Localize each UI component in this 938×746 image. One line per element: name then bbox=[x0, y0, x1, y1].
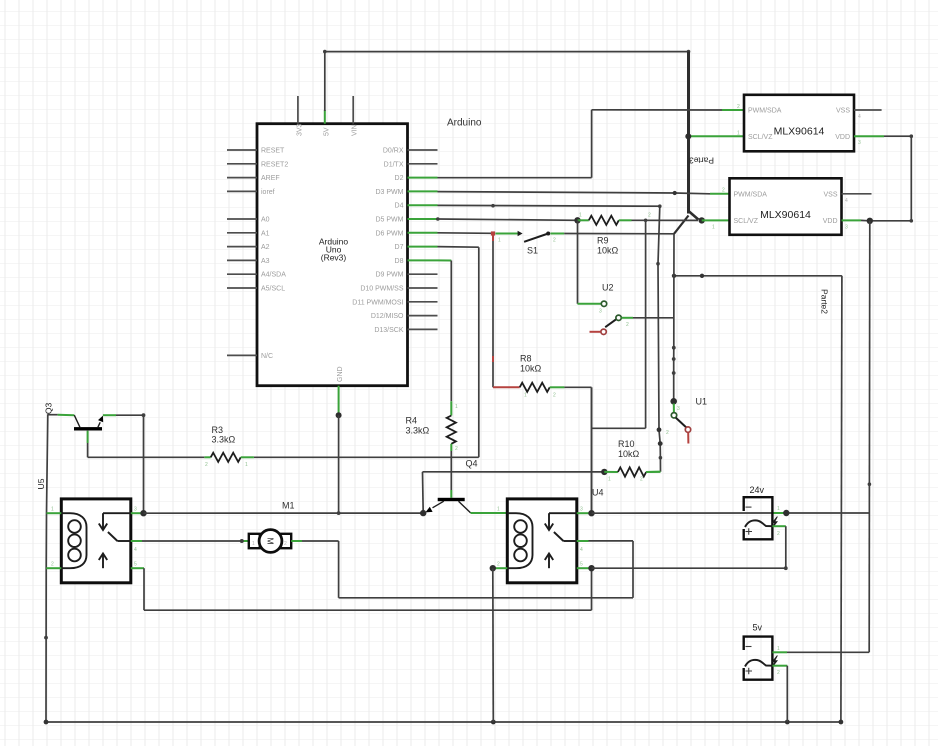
node VDD junction bbox=[867, 218, 873, 224]
wire R10 row to M1 net bbox=[423, 472, 605, 513]
svg-text:VIN: VIN bbox=[352, 124, 359, 136]
svg-text:N/C: N/C bbox=[261, 353, 273, 360]
svg-text:A5/SCL: A5/SCL bbox=[261, 286, 285, 293]
wire 24v plus to relays bottom bbox=[592, 526, 788, 570]
pin VIN bbox=[352, 96, 359, 136]
svg-text:2: 2 bbox=[777, 670, 780, 676]
pin D2 bbox=[395, 175, 438, 182]
transistor Q4 bbox=[425, 459, 477, 513]
node SCL2 junction bbox=[699, 217, 705, 223]
wire 5V top horizontal bbox=[323, 50, 690, 54]
label Parte2 bbox=[820, 289, 830, 314]
svg-text:MLX90614: MLX90614 bbox=[760, 209, 811, 221]
svg-text:2: 2 bbox=[284, 541, 287, 547]
svg-text:D13/SCK: D13/SCK bbox=[374, 327, 404, 334]
svg-text:A1: A1 bbox=[261, 230, 270, 237]
wire Q4 to U4 coil bbox=[471, 512, 508, 514]
svg-text:1: 1 bbox=[737, 131, 740, 137]
node D6 red junction bbox=[491, 231, 495, 235]
pin U5 right-bottom bbox=[131, 567, 144, 569]
svg-text:10kΩ: 10kΩ bbox=[618, 449, 640, 459]
svg-text:D5 PWM: D5 PWM bbox=[376, 217, 404, 224]
svg-text:(Rev3): (Rev3) bbox=[321, 252, 347, 262]
svg-text:3: 3 bbox=[677, 406, 680, 412]
wire D8 down to R4 bbox=[438, 260, 452, 401]
svg-text:1: 1 bbox=[252, 541, 255, 547]
svg-text:R3: R3 bbox=[212, 425, 224, 435]
svg-text:2: 2 bbox=[648, 213, 651, 219]
svg-text:1: 1 bbox=[455, 404, 458, 410]
svg-text:D10 PWM/SS: D10 PWM/SS bbox=[360, 286, 404, 293]
pin U5 common bbox=[131, 540, 142, 542]
svg-text:4: 4 bbox=[858, 114, 861, 120]
wire Q3 emitter to M1 row bbox=[103, 413, 146, 513]
svg-text:U1: U1 bbox=[696, 397, 708, 407]
pin D5 PWM bbox=[376, 217, 438, 224]
wire Q3 collector from left rail bbox=[48, 414, 75, 417]
wire D6 to S1 bbox=[438, 232, 492, 235]
wire 5v plus to bottom rail bbox=[772, 666, 787, 722]
svg-text:RESET2: RESET2 bbox=[261, 161, 288, 168]
node U4 right-bottom junction bbox=[588, 565, 594, 571]
node SCL1 junction bbox=[685, 133, 691, 139]
svg-text:3: 3 bbox=[845, 225, 848, 231]
node R9 left junction bbox=[574, 217, 580, 223]
wire U4 right-top to 24v minus bbox=[592, 512, 870, 514]
svg-text:VDD: VDD bbox=[823, 218, 838, 225]
svg-text:A4/SDA: A4/SDA bbox=[261, 272, 286, 279]
svg-text:5: 5 bbox=[580, 562, 583, 568]
switch U1 bbox=[666, 397, 707, 444]
transistor Q3 bbox=[44, 403, 104, 431]
svg-text:SCL/VZ: SCL/VZ bbox=[748, 134, 773, 141]
svg-text:A3: A3 bbox=[261, 258, 270, 265]
pin D0/RX bbox=[383, 148, 438, 155]
resistor R4 3.3k bbox=[406, 401, 459, 452]
relay U5 bbox=[36, 478, 137, 583]
pin A2 bbox=[227, 244, 270, 251]
wire 5v minus to VDD rail bbox=[772, 651, 869, 653]
pin RESET bbox=[227, 148, 285, 155]
svg-text:Parte3: Parte3 bbox=[689, 156, 714, 166]
wire Q3 base stub bbox=[87, 431, 89, 458]
wire motor right to U4 common bbox=[291, 541, 633, 598]
svg-text:D11 PWM/MOSI: D11 PWM/MOSI bbox=[352, 299, 403, 306]
svg-text:1: 1 bbox=[497, 507, 500, 513]
wire VDD1 to VDD2 bbox=[854, 134, 913, 222]
pin 3V3 bbox=[296, 96, 303, 136]
node R10 left junction bbox=[601, 469, 607, 475]
wire R9 left branch down to U2 bbox=[578, 220, 602, 303]
svg-text:MLX90614: MLX90614 bbox=[774, 125, 825, 137]
wire VDD2 stub bbox=[842, 219, 868, 221]
pin U5 right-top bbox=[131, 512, 144, 514]
node M1 row left junction bbox=[140, 510, 146, 516]
svg-text:1: 1 bbox=[777, 506, 780, 512]
svg-text:Arduino: Arduino bbox=[447, 118, 482, 129]
wire R9 right to SCL2 junction bbox=[632, 219, 699, 223]
pin A4/SDA bbox=[227, 272, 286, 279]
svg-text:3: 3 bbox=[134, 507, 137, 513]
pin U4 left-bottom bbox=[493, 567, 508, 569]
relay U4 bbox=[497, 488, 604, 583]
pin AREF bbox=[227, 175, 280, 182]
svg-text:2: 2 bbox=[626, 322, 629, 328]
svg-text:1: 1 bbox=[777, 646, 780, 652]
pin D4 bbox=[395, 203, 438, 210]
motor M1 bbox=[249, 530, 291, 553]
switch S1 bbox=[495, 231, 564, 256]
pin RESET2 bbox=[227, 161, 288, 168]
pin U5 coil left-top bbox=[47, 512, 62, 514]
pin D9 PWM bbox=[376, 272, 438, 279]
svg-text:10kΩ: 10kΩ bbox=[520, 364, 542, 374]
node U4 left-bottom junction bbox=[490, 565, 496, 571]
pin D8 bbox=[395, 258, 438, 265]
svg-text:GND: GND bbox=[337, 366, 344, 382]
pin D12/MISO bbox=[371, 313, 438, 320]
svg-text:5V: 5V bbox=[323, 127, 330, 136]
ic MLX90614 #2 bbox=[712, 178, 848, 235]
wire D2 to MLX90614 #1 PWM/SDA bbox=[438, 110, 745, 178]
pin A5/SCL bbox=[227, 286, 285, 293]
svg-text:U5: U5 bbox=[36, 478, 46, 489]
pin A1 bbox=[227, 230, 270, 237]
wire D6 down to R8 bbox=[492, 234, 494, 388]
svg-text:Q3: Q3 bbox=[44, 403, 54, 415]
svg-text:4: 4 bbox=[580, 547, 583, 553]
svg-text:3.3kΩ: 3.3kΩ bbox=[406, 426, 430, 436]
svg-text:VDD: VDD bbox=[835, 134, 850, 141]
wire R8 right down to U4 bbox=[564, 387, 591, 513]
svg-text:U4: U4 bbox=[592, 488, 604, 498]
wire R4 to Q4 base bbox=[450, 451, 452, 498]
pin 5V bbox=[323, 110, 330, 136]
wire left rail bbox=[44, 414, 48, 722]
wire GND down bbox=[336, 412, 342, 515]
label Parte3 bbox=[689, 156, 714, 166]
svg-text:1: 1 bbox=[608, 477, 611, 483]
wire U5 common to motor bbox=[142, 539, 249, 543]
ic MLX90614 #1 bbox=[737, 95, 861, 152]
svg-text:2: 2 bbox=[553, 393, 556, 399]
wire D7 down to R3 row bbox=[254, 247, 479, 458]
resistor R9 10k bbox=[578, 213, 652, 256]
svg-text:D3 PWM: D3 PWM bbox=[376, 189, 404, 196]
svg-text:24v: 24v bbox=[750, 485, 765, 495]
wire Parte2 vertical bbox=[841, 276, 842, 722]
wire D4 to R10 right bbox=[438, 204, 663, 472]
pin ioref bbox=[227, 189, 275, 196]
switch U2 bbox=[590, 283, 634, 335]
pin D13/SCK bbox=[374, 327, 437, 334]
svg-text:1: 1 bbox=[579, 213, 582, 219]
battery 24v bbox=[744, 485, 780, 539]
svg-text:A2: A2 bbox=[261, 244, 270, 251]
pin VSS1 stub bbox=[854, 109, 882, 111]
svg-text:R8: R8 bbox=[520, 354, 532, 364]
svg-text:2: 2 bbox=[51, 562, 54, 568]
svg-text:D12/MISO: D12/MISO bbox=[371, 313, 404, 320]
svg-text:3: 3 bbox=[599, 309, 602, 315]
svg-text:1: 1 bbox=[245, 462, 248, 468]
svg-text:2: 2 bbox=[205, 462, 208, 468]
svg-text:2: 2 bbox=[553, 238, 556, 244]
pin U4 right-top bbox=[577, 512, 592, 514]
pin VSS2 stub bbox=[842, 193, 872, 195]
svg-text:D4: D4 bbox=[395, 203, 404, 210]
svg-text:SCL/VZ: SCL/VZ bbox=[734, 218, 759, 225]
wire M1 row bbox=[144, 501, 424, 514]
svg-text:VSS: VSS bbox=[836, 108, 850, 115]
wire Parte3 thick bus bbox=[674, 52, 699, 234]
battery 5v bbox=[744, 623, 780, 680]
wire U5 right-bottom to U4 right-bottom bbox=[144, 568, 592, 610]
svg-text:4: 4 bbox=[134, 547, 137, 553]
resistor R3 3.3k bbox=[204, 425, 254, 468]
pin U4 right-bottom bbox=[577, 567, 592, 569]
svg-text:R9: R9 bbox=[597, 236, 609, 246]
svg-text:2: 2 bbox=[666, 430, 669, 436]
svg-text:R10: R10 bbox=[618, 439, 635, 449]
pin GND bbox=[337, 366, 344, 414]
wire U1 net vertical bbox=[672, 234, 676, 401]
svg-text:3.3kΩ: 3.3kΩ bbox=[212, 435, 236, 445]
pin D1/TX bbox=[384, 161, 438, 168]
svg-text:PWM/SDA: PWM/SDA bbox=[734, 191, 768, 198]
pin A0 bbox=[227, 217, 270, 224]
pin U5 coil left-bottom bbox=[46, 567, 61, 569]
svg-text:1: 1 bbox=[498, 238, 501, 244]
svg-text:VSS: VSS bbox=[823, 191, 837, 198]
svg-text:10kΩ: 10kΩ bbox=[597, 246, 619, 256]
pin D7 bbox=[395, 244, 438, 251]
svg-text:D9 PWM: D9 PWM bbox=[376, 272, 404, 279]
wire D3 to MLX90614 #2 PWM/SDA bbox=[438, 191, 730, 195]
svg-text:S1: S1 bbox=[527, 246, 538, 256]
svg-text:3: 3 bbox=[858, 140, 861, 146]
wire Parte2 horizontal bbox=[672, 274, 842, 278]
wire 5V riser bbox=[324, 52, 326, 111]
svg-text:D1/TX: D1/TX bbox=[384, 161, 404, 168]
svg-text:1: 1 bbox=[712, 225, 715, 231]
svg-text:R4: R4 bbox=[406, 416, 418, 426]
svg-text:5: 5 bbox=[134, 562, 137, 568]
pin A3 bbox=[227, 258, 270, 265]
node U4 right-top junction bbox=[588, 510, 594, 516]
pin D10 PWM/SS bbox=[360, 286, 437, 293]
pin U4 common bbox=[577, 540, 589, 542]
svg-text:2: 2 bbox=[497, 562, 500, 568]
pin D6 PWM bbox=[376, 230, 438, 237]
wire R9 right branch down bbox=[592, 220, 646, 428]
svg-text:Parte2: Parte2 bbox=[820, 289, 830, 314]
wire D5 to R9 bbox=[436, 217, 578, 221]
pin D3 PWM bbox=[376, 189, 438, 196]
pin D11 PWM/MOSI bbox=[352, 299, 437, 306]
ic U3 Arduino Uno (Rev3) body bbox=[257, 118, 482, 386]
svg-text:4: 4 bbox=[845, 198, 848, 204]
node 24v minus junction bbox=[783, 510, 789, 516]
svg-text:D2: D2 bbox=[395, 175, 404, 182]
svg-text:2: 2 bbox=[737, 104, 740, 110]
svg-text:M: M bbox=[266, 537, 276, 544]
svg-text:ioref: ioref bbox=[261, 189, 275, 196]
svg-text:2: 2 bbox=[777, 531, 780, 537]
svg-text:D7: D7 bbox=[395, 244, 404, 251]
svg-text:RESET: RESET bbox=[261, 148, 285, 155]
svg-text:2: 2 bbox=[722, 188, 725, 194]
wire SCL net to MLX90614 #1 SCL/VZ bbox=[689, 135, 744, 137]
wire U4 left-bottom down to bottom rail bbox=[492, 568, 495, 722]
svg-text:A0: A0 bbox=[261, 217, 270, 224]
pin N/C bbox=[227, 353, 273, 360]
svg-text:3: 3 bbox=[580, 507, 583, 513]
node Q4 emitter junction bbox=[420, 510, 426, 516]
resistor R10 10k bbox=[604, 439, 660, 483]
svg-text:1: 1 bbox=[524, 393, 527, 399]
svg-text:2: 2 bbox=[455, 446, 458, 452]
resistor R8 10k bbox=[493, 354, 564, 399]
wire SCL2 junction to MLX90614 #2 SCL/VZ bbox=[702, 219, 730, 221]
wire S1 to Parte3 bus bbox=[564, 233, 674, 235]
svg-text:M1: M1 bbox=[282, 501, 295, 511]
svg-text:D6 PWM: D6 PWM bbox=[376, 230, 404, 237]
svg-text:3V3: 3V3 bbox=[296, 123, 303, 136]
svg-text:U2: U2 bbox=[602, 283, 614, 293]
wire U2 common to U1 net bbox=[633, 317, 674, 319]
svg-text:Q4: Q4 bbox=[466, 459, 478, 469]
wire VDD vertical to supplies bbox=[868, 221, 872, 653]
svg-text:2: 2 bbox=[640, 477, 643, 483]
wire R3 left to Q3 base bbox=[88, 456, 205, 458]
svg-text:5v: 5v bbox=[753, 623, 763, 633]
svg-text:AREF: AREF bbox=[261, 175, 280, 182]
svg-text:D8: D8 bbox=[395, 258, 404, 265]
wire bottom rail bbox=[44, 720, 844, 725]
svg-text:PWM/SDA: PWM/SDA bbox=[748, 108, 782, 115]
svg-text:D0/RX: D0/RX bbox=[383, 148, 404, 155]
svg-text:1: 1 bbox=[51, 507, 54, 513]
